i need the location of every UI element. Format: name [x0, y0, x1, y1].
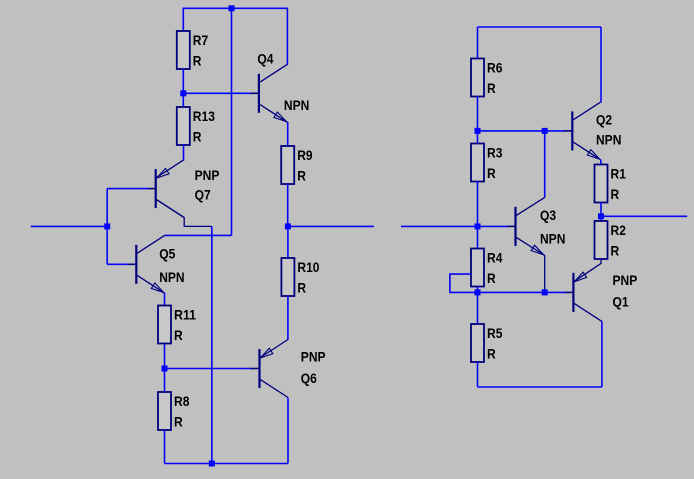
resistor R4	[471, 249, 503, 287]
svg-text:R: R	[611, 186, 620, 202]
transistor Q2	[564, 102, 622, 160]
resistor R1	[595, 165, 627, 203]
wire	[182, 93, 184, 107]
svg-text:NPN: NPN	[596, 132, 621, 148]
svg-text:R10: R10	[297, 259, 319, 275]
wire	[164, 369, 166, 393]
junction	[475, 223, 481, 229]
resistor R13	[177, 107, 215, 145]
svg-text:R: R	[297, 168, 306, 184]
wire	[450, 274, 478, 292]
svg-text:Q4: Q4	[257, 50, 273, 66]
svg-text:Q7: Q7	[195, 187, 211, 203]
svg-text:R: R	[297, 280, 306, 296]
wire	[31, 225, 107, 227]
svg-text:R11: R11	[174, 307, 196, 323]
svg-text:R2: R2	[611, 222, 627, 238]
svg-text:R: R	[174, 414, 183, 430]
wire	[183, 7, 288, 9]
wire	[477, 226, 479, 248]
wire	[165, 368, 252, 370]
wire	[477, 292, 479, 324]
wire	[182, 8, 184, 32]
junction	[162, 366, 168, 372]
wire	[477, 131, 479, 144]
svg-text:PNP: PNP	[301, 349, 326, 365]
junction	[542, 289, 548, 295]
resistor R6	[471, 59, 503, 97]
svg-text:R5: R5	[487, 325, 503, 341]
wire	[164, 293, 166, 306]
svg-text:Q2: Q2	[596, 112, 612, 128]
svg-text:R4: R4	[487, 250, 503, 266]
resistor R5	[471, 324, 503, 362]
svg-text:R: R	[487, 165, 496, 181]
wire	[601, 321, 603, 387]
resistor R11	[158, 306, 196, 344]
wire	[600, 259, 602, 264]
transistor Q4	[250, 50, 309, 122]
wire	[287, 398, 289, 464]
svg-text:R: R	[487, 80, 496, 96]
svg-text:Q6: Q6	[301, 370, 317, 386]
wire	[600, 216, 602, 221]
wire	[600, 27, 602, 103]
resistor R2	[595, 221, 627, 259]
junction	[229, 5, 235, 11]
svg-text:R8: R8	[174, 393, 190, 409]
svg-text:R: R	[487, 270, 496, 286]
wire	[165, 234, 232, 236]
transistor Q1	[565, 263, 637, 321]
wire	[477, 362, 479, 387]
wire	[287, 122, 289, 147]
svg-text:Q3: Q3	[540, 207, 556, 223]
svg-text:R: R	[193, 129, 202, 145]
svg-text:NPN: NPN	[159, 269, 184, 285]
junction	[542, 128, 548, 134]
svg-text:R: R	[174, 327, 183, 343]
wire	[477, 182, 479, 227]
wire	[544, 255, 546, 292]
wire	[231, 8, 233, 235]
wire	[288, 225, 374, 227]
svg-text:R: R	[611, 243, 620, 259]
wire	[287, 184, 289, 226]
wire	[106, 189, 108, 265]
junction	[285, 223, 291, 229]
svg-text:R9: R9	[297, 147, 313, 163]
wire	[286, 8, 288, 65]
svg-text:R6: R6	[487, 60, 503, 76]
wire	[477, 97, 479, 131]
transistor Q3	[507, 197, 565, 255]
wire	[164, 344, 166, 369]
svg-text:R: R	[193, 53, 202, 69]
wire	[477, 287, 479, 293]
svg-text:PNP: PNP	[195, 167, 220, 183]
svg-text:NPN: NPN	[284, 97, 309, 113]
junction	[475, 128, 481, 134]
wire	[600, 203, 602, 217]
svg-text:Q5: Q5	[159, 246, 175, 262]
wire	[107, 263, 128, 265]
svg-text:Q1: Q1	[613, 294, 629, 310]
svg-text:NPN: NPN	[540, 231, 565, 247]
resistor R8	[158, 392, 190, 430]
wire	[477, 27, 479, 59]
junction	[104, 223, 110, 229]
wire	[287, 296, 289, 340]
svg-text:R7: R7	[193, 32, 209, 48]
wire	[600, 160, 602, 165]
resistor R10	[281, 258, 319, 296]
svg-text:PNP: PNP	[613, 272, 638, 288]
wire	[478, 130, 565, 132]
wire	[164, 430, 166, 464]
wire	[211, 226, 213, 463]
wire	[478, 26, 602, 28]
wire	[478, 291, 567, 293]
wire	[601, 215, 687, 217]
wire	[401, 225, 478, 227]
wire	[287, 226, 289, 258]
junction	[180, 90, 186, 96]
junction	[598, 213, 604, 219]
wire	[165, 463, 289, 465]
svg-text:R1: R1	[611, 166, 627, 182]
wire	[183, 92, 251, 94]
svg-text:R13: R13	[193, 108, 215, 124]
wire	[107, 188, 148, 190]
wire	[182, 69, 184, 93]
wire	[478, 225, 509, 227]
wire	[183, 145, 185, 161]
wire	[544, 131, 546, 198]
transistor Q6	[251, 340, 326, 398]
junction	[209, 461, 215, 467]
svg-text:R: R	[487, 346, 496, 362]
resistor R9	[281, 146, 313, 184]
junction	[475, 289, 481, 295]
svg-text:R3: R3	[487, 145, 503, 161]
transistor Q5	[128, 235, 185, 293]
resistor R3	[471, 144, 503, 182]
transistor Q7	[147, 160, 219, 218]
wire	[478, 386, 602, 388]
wire - Q7 collector path	[156, 199, 212, 226]
resistor R7	[177, 31, 209, 69]
